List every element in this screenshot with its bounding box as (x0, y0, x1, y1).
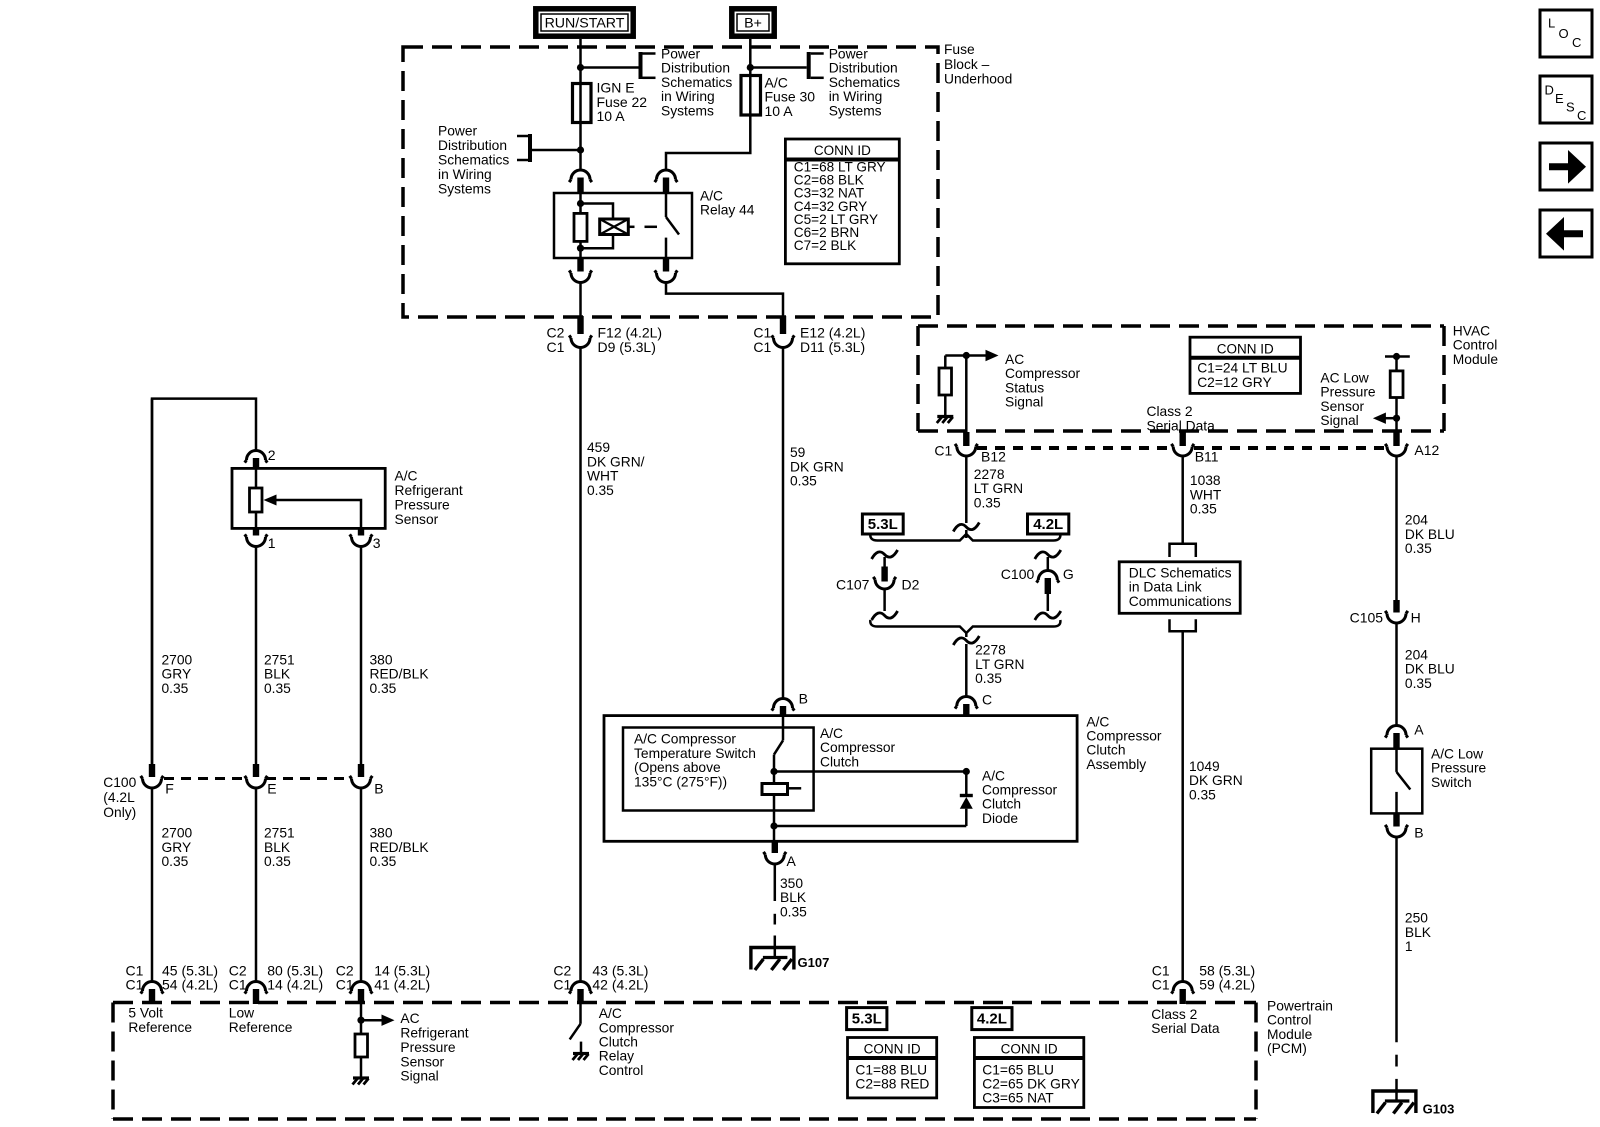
svg-text:(Opens above: (Opens above (634, 760, 721, 775)
svg-text:C1: C1 (553, 977, 571, 993)
temp switch upper contact (782, 717, 785, 741)
svg-text:DLC Schematics: DLC Schematics (1129, 565, 1232, 580)
connector pcm sensor signal (358, 989, 364, 1004)
connector C100 E (253, 764, 259, 777)
svg-text:RUN/START: RUN/START (545, 16, 625, 32)
svg-text:C1: C1 (336, 977, 354, 993)
relay 44 box (554, 193, 692, 258)
power feed tag RUN/START (536, 9, 633, 36)
ac low pressure switch box (1371, 749, 1422, 814)
junction dot hvac sensor signal (1393, 415, 1400, 422)
svg-text:Power: Power (438, 123, 478, 138)
svg-text:D11 (5.3L): D11 (5.3L) (800, 339, 865, 355)
wire C105 to switch (1395, 623, 1398, 726)
svg-text:S: S (1566, 100, 1575, 115)
svg-text:2700: 2700 (162, 653, 193, 668)
connector pcm 5v ref (149, 989, 155, 1004)
svg-text:0.35: 0.35 (780, 904, 807, 919)
svg-text:DK BLU: DK BLU (1405, 662, 1455, 677)
connector C1 exit fuse block (780, 316, 786, 334)
relay resistor bottom wire (579, 241, 582, 258)
svg-text:HVAC: HVAC (1453, 323, 1490, 338)
svg-text:D9 (5.3L): D9 (5.3L) (598, 339, 656, 355)
pcm relay control switch wire (579, 1004, 582, 1024)
svg-text:Module: Module (1453, 352, 1499, 367)
svg-text:B12: B12 (981, 448, 1006, 464)
svg-text:204: 204 (1405, 647, 1428, 662)
connector C107 D2 (881, 567, 887, 582)
temp switch pivot wire (773, 755, 776, 784)
conn id table pcm 4.2L (974, 1038, 1083, 1108)
ground symbol pcm sensor (353, 1076, 369, 1079)
svg-text:in Wiring: in Wiring (829, 89, 883, 104)
svg-text:Schematics: Schematics (661, 75, 732, 90)
svg-text:G: G (1063, 566, 1074, 582)
low pressure switch bottom contact (1395, 792, 1398, 814)
junction dot relay bottom (577, 245, 584, 252)
svg-text:0.35: 0.35 (1189, 788, 1216, 803)
svg-text:59: 59 (790, 445, 806, 460)
svg-text:380: 380 (370, 826, 393, 841)
low pressure switch blade (1397, 772, 1411, 790)
engine tag 4.2L (1028, 514, 1069, 534)
wire 350 BLK dashed tail (774, 914, 777, 925)
hvac status pull resistor (939, 368, 952, 395)
svg-text:4.2L: 4.2L (977, 1011, 1007, 1028)
svg-text:204: 204 (1405, 513, 1428, 528)
svg-text:10 A: 10 A (765, 103, 794, 119)
svg-text:Status: Status (1005, 380, 1044, 395)
svg-text:Only): Only) (103, 805, 136, 820)
pcm sensor resistor ground wire (360, 1057, 363, 1077)
branch 5.3L top break (872, 550, 898, 559)
sensor potentiometer resistor (250, 488, 263, 512)
connector pcm clutch relay control (577, 989, 583, 1004)
svg-text:BLK: BLK (1405, 925, 1432, 940)
svg-text:C1: C1 (126, 977, 144, 993)
clutch coil cross wire lower (774, 825, 966, 828)
wire break lower splice (953, 636, 979, 645)
wire from splice lower brace (965, 633, 968, 637)
svg-text:2700: 2700 (162, 826, 193, 841)
arrow AC compressor status signal (986, 350, 999, 361)
branch 4.2L top break (1035, 550, 1061, 559)
svg-text:Assembly: Assembly (1086, 757, 1146, 772)
svg-text:0.35: 0.35 (587, 483, 614, 498)
svg-text:Serial Data: Serial Data (1151, 1021, 1220, 1036)
dlc schematics box (1119, 562, 1240, 614)
svg-text:Sensor: Sensor (400, 1054, 444, 1069)
junction dot pcm sensor signal (357, 1017, 364, 1024)
svg-text:L: L (1548, 16, 1555, 31)
ground G107 (751, 948, 794, 970)
engine tag 4.2L (pcm) (972, 1008, 1012, 1030)
svg-text:Control: Control (599, 1063, 643, 1078)
svg-text:4.2L: 4.2L (1033, 516, 1063, 533)
svg-text:1038: 1038 (1190, 473, 1221, 488)
junction dot left distribution tap (577, 146, 584, 153)
svg-text:LT GRN: LT GRN (974, 481, 1023, 496)
svg-text:Pressure: Pressure (1320, 385, 1376, 400)
junction dot clutch diode top (963, 768, 970, 775)
svg-text:Compressor: Compressor (820, 740, 896, 755)
svg-text:in Wiring: in Wiring (661, 89, 715, 104)
junction dot hvac sensor top (1393, 353, 1400, 360)
wire 59 DK GRN (782, 348, 785, 699)
svg-text:Control: Control (1453, 338, 1497, 353)
wire branch 5.3L lower (883, 589, 886, 611)
svg-text:C105: C105 (1350, 609, 1384, 625)
splice brace lower (870, 620, 1060, 633)
svg-text:in Wiring: in Wiring (438, 167, 492, 182)
svg-text:C3=65 NAT: C3=65 NAT (982, 1090, 1054, 1105)
svg-text:Compressor: Compressor (982, 783, 1058, 798)
svg-text:C2=88 RED: C2=88 RED (855, 1076, 929, 1091)
wire 380 RED/BLK lower (360, 788, 363, 982)
svg-text:5 Volt: 5 Volt (128, 1006, 163, 1021)
svg-text:Underhood: Underhood (944, 71, 1012, 86)
relay coil to switch dashed link (628, 226, 634, 229)
svg-text:Compressor: Compressor (599, 1020, 675, 1035)
svg-text:0.35: 0.35 (264, 854, 291, 869)
svg-text:C1: C1 (753, 339, 771, 355)
svg-text:AC: AC (400, 1011, 419, 1026)
connector pcm low ref (253, 989, 259, 1004)
sensor potentiometer wire (255, 469, 258, 489)
relay switch lower contact (665, 238, 668, 258)
svg-text:0.35: 0.35 (162, 681, 189, 696)
svg-text:Sensor: Sensor (1320, 399, 1364, 414)
ac compressor clutch assembly box (604, 716, 1077, 842)
wire 2751 BLK lower (255, 788, 258, 982)
off-page reference bracket (fuse 22 feed) (639, 52, 643, 79)
svg-text:C2=65 DK GRY: C2=65 DK GRY (982, 1076, 1080, 1091)
svg-text:Reference: Reference (229, 1020, 293, 1035)
branch 4.2L bottom break (1035, 611, 1061, 620)
conn id table fuse block (785, 139, 899, 264)
svg-text:0.35: 0.35 (370, 854, 397, 869)
relay resistor (574, 213, 587, 241)
sensor feed top wire (152, 399, 256, 764)
clutch diode lower wire (965, 809, 968, 826)
connector C1 B12 (963, 432, 969, 446)
svg-text:Schematics: Schematics (829, 75, 900, 90)
temp switch blade (774, 740, 783, 754)
wire hvac status signal (966, 354, 986, 357)
ground symbol pcm relay control (573, 1052, 589, 1055)
svg-text:0.35: 0.35 (975, 671, 1002, 686)
wire hvac B12 internal (965, 356, 968, 434)
svg-text:Systems: Systems (661, 103, 714, 118)
conn id table pcm 5.3L (848, 1038, 937, 1098)
svg-text:Class 2: Class 2 (1151, 1007, 1197, 1022)
svg-text:Distribution: Distribution (829, 61, 898, 76)
svg-text:G103: G103 (1423, 1102, 1455, 1117)
svg-text:459: 459 (587, 440, 610, 455)
dlc entry bracket (1170, 544, 1196, 557)
svg-text:Clutch: Clutch (1086, 743, 1125, 758)
svg-text:Sensor: Sensor (395, 512, 439, 527)
svg-text:C: C (1572, 35, 1581, 50)
svg-text:CONN ID: CONN ID (864, 1041, 921, 1056)
wire 250 BLK dashed tail (1395, 1055, 1398, 1067)
wire A pin internal (773, 826, 776, 841)
svg-text:1: 1 (268, 535, 276, 551)
splice brace upper (870, 534, 1060, 541)
svg-text:Switch: Switch (1431, 775, 1472, 790)
svg-text:Low: Low (229, 1006, 254, 1021)
junction dot temp switch left (770, 768, 777, 775)
svg-text:Clutch: Clutch (599, 1035, 638, 1050)
svg-text:O: O (1559, 26, 1569, 41)
wire 2278 LT GRN upper (965, 456, 968, 523)
wire branch 5.3L upper (883, 557, 886, 567)
svg-text:Temperature Switch: Temperature Switch (634, 746, 756, 761)
svg-text:CONN ID: CONN ID (814, 143, 871, 158)
connector B11 (1180, 432, 1186, 446)
relay coil (box with X) (600, 219, 629, 235)
svg-text:350: 350 (780, 876, 803, 891)
hvac low pressure sensor branch top (1385, 355, 1410, 358)
engine tag 5.3L (pcm) (847, 1008, 887, 1030)
connector pin 3 sensor (358, 528, 364, 535)
svg-text:Schematics: Schematics (438, 152, 509, 167)
wire hvac B11 internal (1181, 431, 1184, 433)
svg-text:in Data Link: in Data Link (1129, 580, 1202, 595)
svg-text:0.35: 0.35 (162, 854, 189, 869)
svg-text:RED/BLK: RED/BLK (370, 667, 430, 682)
svg-text:Clutch: Clutch (820, 754, 859, 769)
wire 2751 BLK upper (255, 547, 258, 765)
svg-text:Systems: Systems (829, 103, 882, 118)
svg-text:D: D (1545, 83, 1554, 98)
arrow AC low pressure sensor signal (1373, 413, 1386, 424)
svg-text:2278: 2278 (974, 467, 1005, 482)
svg-text:14 (4.2L): 14 (4.2L) (267, 977, 323, 993)
wire ac low pressure sensor signal (1386, 417, 1397, 420)
svg-text:42 (4.2L): 42 (4.2L) (592, 977, 648, 993)
svg-text:Powertrain: Powertrain (1267, 999, 1333, 1014)
svg-text:AC Low: AC Low (1320, 371, 1368, 386)
temp switch thermal element (762, 784, 788, 795)
svg-text:C1: C1 (547, 339, 565, 355)
fuse IGN E Fuse 22 10 A (573, 84, 592, 123)
svg-text:Signal: Signal (400, 1069, 438, 1084)
svg-text:54 (4.2L): 54 (4.2L) (162, 977, 218, 993)
svg-text:A/C: A/C (1086, 714, 1109, 729)
svg-text:B: B (374, 781, 383, 797)
svg-text:2: 2 (268, 447, 276, 463)
relay switch fixed contact (665, 193, 668, 217)
connector pin relay coil bottom (577, 258, 583, 272)
svg-text:C: C (1577, 108, 1586, 123)
svg-text:1: 1 (1405, 939, 1413, 954)
branch 5.3L bottom break (872, 611, 898, 620)
svg-text:0.35: 0.35 (1190, 502, 1217, 517)
svg-text:G107: G107 (798, 955, 830, 970)
svg-text:Power: Power (661, 47, 701, 62)
ground symbol hvac status (937, 415, 953, 418)
junction dot hvac status (963, 352, 970, 359)
pcm relay control switch blade (570, 1024, 581, 1040)
svg-text:Control: Control (1267, 1013, 1311, 1028)
svg-text:A/C: A/C (982, 768, 1005, 783)
engine tag 5.3L (862, 514, 903, 534)
svg-text:B11: B11 (1195, 448, 1219, 464)
svg-text:1049: 1049 (1189, 759, 1220, 774)
svg-text:C1: C1 (229, 977, 247, 993)
wire relay coil out (579, 283, 582, 317)
low pressure switch top contact (1395, 750, 1398, 772)
svg-text:Refrigerant: Refrigerant (395, 483, 463, 498)
ac refrigerant pressure sensor box (232, 468, 385, 528)
icon box DESC (1540, 76, 1592, 123)
svg-text:C1=24 LT BLU: C1=24 LT BLU (1197, 360, 1287, 375)
svg-text:GRY: GRY (162, 840, 192, 855)
icon box forward arrow (1540, 143, 1592, 190)
svg-text:0.35: 0.35 (264, 681, 291, 696)
svg-text:C107: C107 (836, 577, 870, 593)
hvac sensor resistor wire (1395, 357, 1398, 372)
svg-text:CONN ID: CONN ID (1001, 1041, 1058, 1056)
conn id table hvac (1190, 337, 1301, 393)
fuse A/C Fuse 30 10 A (741, 76, 761, 116)
svg-text:0.35: 0.35 (974, 495, 1001, 510)
svg-text:DK GRN: DK GRN (1189, 773, 1243, 788)
wire 2700 GRY upper (151, 399, 154, 764)
svg-text:C1: C1 (934, 443, 952, 459)
icon box back arrow (1540, 210, 1592, 257)
svg-text:A/C: A/C (700, 189, 723, 204)
svg-text:135°C (275°F)): 135°C (275°F)) (634, 774, 727, 789)
svg-text:A12: A12 (1414, 442, 1439, 458)
connector C100 B (358, 764, 364, 777)
connector pin 2 sensor (253, 458, 259, 469)
svg-text:C: C (982, 692, 992, 708)
temp element lower wire (773, 795, 776, 827)
svg-text:Class 2: Class 2 (1147, 404, 1193, 419)
svg-text:Block –: Block – (944, 57, 990, 72)
sensor wiper arrow (264, 495, 277, 506)
svg-text:3: 3 (373, 535, 381, 551)
svg-text:LT GRN: LT GRN (975, 657, 1024, 672)
svg-text:250: 250 (1405, 911, 1428, 926)
svg-text:Module: Module (1267, 1027, 1313, 1042)
wire B11 to DLC (1181, 456, 1184, 544)
svg-text:Compressor: Compressor (1005, 366, 1081, 381)
svg-text:WHT: WHT (1190, 487, 1222, 502)
svg-text:380: 380 (370, 653, 393, 668)
svg-text:AC: AC (1005, 352, 1024, 367)
off-page reference bracket (left) (528, 134, 532, 162)
wire 380 RED/BLK upper (360, 547, 363, 765)
svg-text:0.35: 0.35 (1405, 676, 1432, 691)
svg-text:E: E (1555, 91, 1564, 106)
hvac status resistor branch (945, 354, 966, 357)
clutch diode upper wire (965, 772, 968, 796)
wire to sensor signal arrow (361, 1019, 382, 1022)
relay coil feed wire (579, 193, 582, 214)
clutch coil cross wire upper (774, 770, 966, 773)
a/c compressor clutch diode (960, 794, 973, 797)
connector C105 H (1393, 600, 1399, 613)
svg-text:Reference: Reference (128, 1020, 192, 1035)
svg-text:A: A (787, 853, 797, 869)
wire branch 4.2L upper (1047, 557, 1050, 571)
svg-text:0.35: 0.35 (370, 681, 397, 696)
svg-text:2278: 2278 (975, 643, 1006, 658)
svg-text:A/C: A/C (820, 726, 843, 741)
svg-text:Communications: Communications (1129, 594, 1232, 609)
svg-text:A: A (1414, 722, 1424, 738)
svg-text:(4.2L: (4.2L (103, 790, 135, 805)
junction dot at B+ branch (747, 64, 754, 71)
svg-text:RED/BLK: RED/BLK (370, 840, 430, 855)
wire 459 DK GRN/WHT (579, 348, 582, 982)
svg-text:DK GRN: DK GRN (790, 459, 844, 474)
svg-text:Compressor: Compressor (1086, 729, 1162, 744)
svg-text:A/C: A/C (599, 1006, 622, 1021)
svg-text:BLK: BLK (780, 890, 807, 905)
svg-text:C100: C100 (1001, 566, 1035, 582)
connector pin relay coil top (577, 178, 583, 194)
svg-text:BLK: BLK (264, 840, 291, 855)
connector pin B low pressure switch (1393, 814, 1399, 827)
svg-text:C1=65 BLU: C1=65 BLU (982, 1062, 1054, 1077)
svg-text:Pressure: Pressure (400, 1040, 456, 1055)
relay switch blade (666, 217, 679, 235)
svg-text:Fuse: Fuse (944, 42, 975, 57)
hvac control module dashed enclosure (918, 324, 1444, 328)
svg-text:C1: C1 (1152, 977, 1170, 993)
svg-text:Relay 44: Relay 44 (700, 203, 755, 218)
svg-text:DK GRN/: DK GRN/ (587, 454, 645, 469)
dlc exit bracket (1170, 619, 1196, 631)
svg-text:Distribution: Distribution (661, 61, 730, 76)
temperature switch inner box (623, 728, 814, 811)
svg-text:BLK: BLK (264, 667, 291, 682)
svg-text:10 A: 10 A (597, 108, 626, 124)
svg-text:5.3L: 5.3L (868, 516, 898, 533)
svg-text:59 (4.2L): 59 (4.2L) (1199, 977, 1255, 993)
svg-text:0.35: 0.35 (1405, 541, 1432, 556)
connector pin 1 sensor (253, 528, 259, 535)
svg-text:Pressure: Pressure (395, 498, 451, 513)
sensor wiper wire (277, 500, 362, 528)
wire 350 BLK (774, 864, 777, 901)
wire 2278 LT GRN lower (965, 644, 968, 697)
svg-text:5.3L: 5.3L (852, 1011, 882, 1028)
pcm sensor pull resistor (355, 1034, 368, 1057)
svg-text:Clutch: Clutch (982, 797, 1021, 812)
connector pin B clutch (780, 706, 786, 717)
wire B+ junction to off-page bracket (750, 66, 806, 69)
svg-text:Signal: Signal (1005, 395, 1043, 410)
svg-text:H: H (1411, 609, 1421, 625)
svg-text:Pressure: Pressure (1431, 761, 1487, 776)
svg-text:DK BLU: DK BLU (1405, 527, 1455, 542)
pcm sensor signal wire (360, 1004, 363, 1035)
powertrain control module dashed enclosure (113, 1001, 1256, 1005)
svg-text:CONN ID: CONN ID (1217, 341, 1274, 356)
svg-text:A/C: A/C (395, 469, 418, 484)
svg-text:Relay: Relay (599, 1049, 634, 1064)
svg-text:41 (4.2L): 41 (4.2L) (374, 977, 430, 993)
svg-text:WHT: WHT (587, 469, 619, 484)
hvac sensor resistor (1390, 371, 1403, 398)
wire relay switch out (666, 283, 783, 317)
svg-text:E: E (267, 781, 276, 797)
